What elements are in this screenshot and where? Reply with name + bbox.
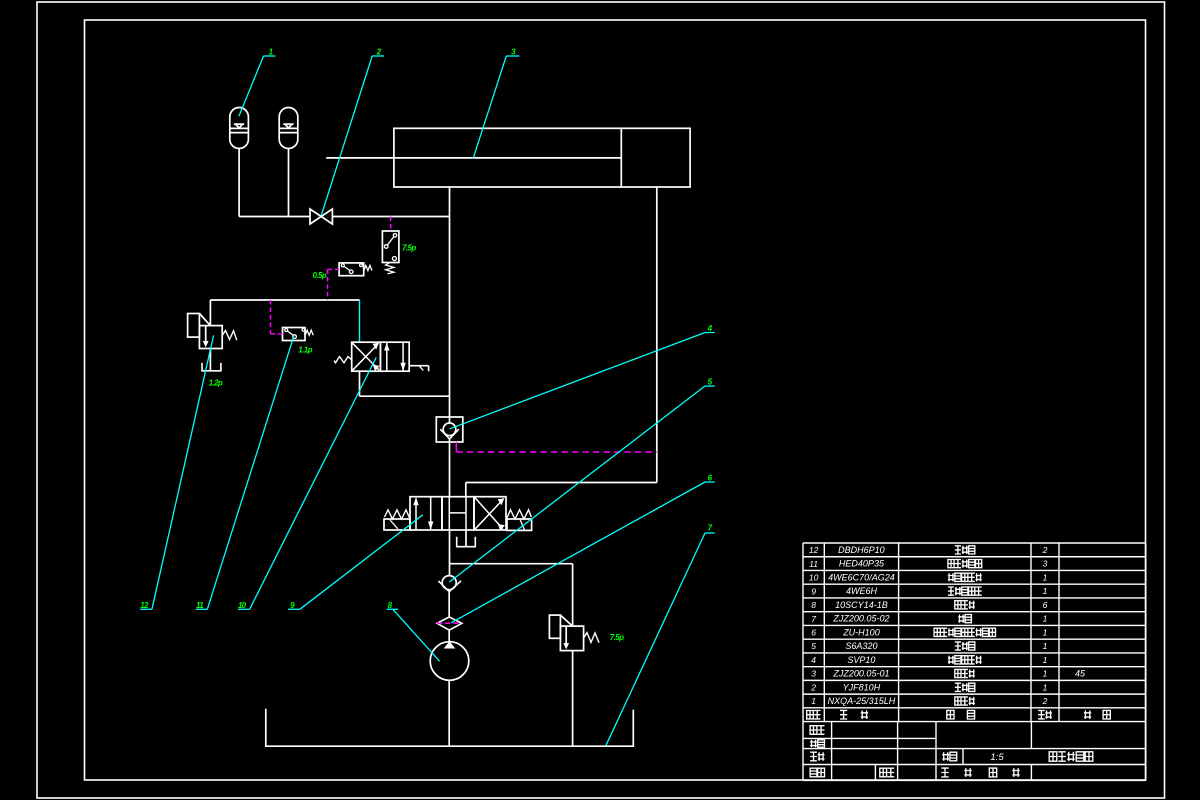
control line: relief valve 12a header [210,299,359,301]
svg-text:1: 1 [1043,655,1048,665]
svg-text:4WE6C70/AG24: 4WE6C70/AG24 [828,572,895,582]
pilot line: header to pressure switch 11b [328,268,340,270]
wire: shut-off valve to cylinder port junction [332,216,449,218]
pilot line: header to pressure switch 11c [270,300,272,334]
leader line for item 5 [449,378,714,583]
leader line for item 7 [606,524,715,746]
svg-text:ZU-H100: ZU-H100 [842,627,880,637]
leader line for item 3 [473,48,519,159]
svg-text:YJF810H: YJF810H [843,682,881,692]
svg-text:4WE6H: 4WE6H [846,586,878,596]
relief valve 12b (DBDH6P10, 7.5p) [549,615,599,651]
svg-text:1: 1 [811,696,816,706]
svg-text:S6A320: S6A320 [845,641,877,651]
hydraulic cylinder 3 (ZJZ200.05-01) [326,128,690,187]
piston [620,128,622,187]
wire: cylinder left port down [449,187,451,417]
svg-text:NXQA-25/315LH: NXQA-25/315LH [828,696,896,706]
svg-text:5: 5 [811,641,816,651]
svg-text:DBDH6P10: DBDH6P10 [838,545,885,555]
svg-text:7: 7 [811,614,816,624]
svg-text:2: 2 [1042,545,1048,555]
svg-text:ZJZ200.05-01: ZJZ200.05-01 [832,669,889,679]
pressure switch 11c (HED40P35, 1.1p) [283,328,314,341]
pressure switch 11b (HED40P35, 0.5p) [339,263,372,276]
svg-text:1: 1 [1043,641,1048,651]
wire: valve 10 outlet down [359,371,361,396]
wire: valve 9 P-port down [449,530,451,576]
svg-text:HED40P35: HED40P35 [839,559,885,569]
svg-text:7.5p: 7.5p [402,243,416,252]
leader line for item 2 [321,47,384,215]
title block labels [810,726,1093,777]
wire: relief valve 12b to tank [572,651,574,747]
wire: header to relief valve 12a [209,300,211,326]
svg-text:45: 45 [1075,669,1086,679]
svg-text:3: 3 [811,669,816,679]
svg-text:4: 4 [811,655,816,665]
svg-text:6: 6 [811,628,816,638]
svg-text:0.5p: 0.5p [313,271,327,280]
svg-text:1: 1 [1043,614,1048,624]
pilot operated check valve 4 (SVP10) [436,417,463,442]
wire: cylinder right port down [656,187,658,483]
svg-text:9: 9 [811,586,816,596]
wire: accumulator 1b drop [288,149,290,217]
wire: SVP10 internal stubs [449,417,451,423]
filter 6 (ZU-H100) [437,617,462,630]
tank symbol under valve 9 [457,537,476,547]
relief valve 12a (DBDH6P10, 1.2p) [188,314,237,349]
wire: control header drop to valve 10 (cyan) [359,300,361,342]
leader line for item 12 [140,335,213,610]
piston rod [326,157,621,159]
parts list rows text [809,545,1086,706]
svg-text:1:5: 1:5 [990,752,1004,763]
wire: right port drop to valve 9 [465,483,467,497]
wire: pump suction to tank [448,680,450,746]
svg-text:10: 10 [809,573,819,583]
wire: right port horizontal to valve 9 [466,482,657,484]
svg-text:1: 1 [1043,586,1048,596]
svg-text:1.1p: 1.1p [298,346,312,355]
tank symbol under relief valve 12a [202,363,221,371]
pilot line: SVP10 remote [455,442,457,452]
wire: valve 10 outlet to main line [360,395,450,397]
svg-text:8: 8 [811,600,816,610]
leader line for item 1 [239,47,276,116]
svg-text:10: 10 [238,601,247,610]
svg-text:1: 1 [1043,682,1048,692]
wire: relief valve 12a to tank symbol [209,349,211,371]
leader line for item 10 [238,357,376,610]
parts list table [803,543,1146,722]
wire: valve 9 T-port to tank symbol [465,530,467,547]
pilot line: pipe to pressure switch 11a [390,217,392,232]
svg-text:1: 1 [1043,627,1048,637]
directional valve 9 (4WE6H) 3-pos 4-way [384,497,532,531]
accumulator 1b (NXQA-25/315LH) [279,108,298,149]
svg-text:7.5p: 7.5p [610,633,624,642]
svg-text:10SCY14-1B: 10SCY14-1B [835,600,888,610]
leader line for item 9 [288,515,423,610]
title block [803,722,1146,781]
svg-text:12: 12 [140,601,149,610]
leader line for item 4 [450,324,715,429]
svg-text:12: 12 [809,545,819,555]
svg-text:1: 1 [1043,669,1048,679]
svg-text:ZJZ200.05-02: ZJZ200.05-02 [832,614,889,624]
svg-text:1: 1 [1043,572,1048,582]
svg-text:2: 2 [1042,696,1048,706]
leader line for item 8 [387,601,440,661]
check valve 5 (S6A320) [438,576,461,592]
wire: accumulator 1a drop [238,149,240,217]
shut-off valve 2 (YJF810H) [310,209,332,224]
leader line for item 11 [196,336,294,610]
pressure switch 11a (HED40P35, 7.5p) [382,231,399,274]
parts list header [807,710,1111,719]
directional valve 10 (4WE6C70/AG24) 2-pos 3-way [334,342,429,371]
pump 8 (10SCY14-1B) [430,642,469,681]
wire: accumulator manifold to shut-off valve [239,216,310,218]
svg-text:3: 3 [1043,559,1048,569]
wire: filter to pump [448,630,450,642]
wire: branch to relief valve 12b [450,563,573,565]
wire: check valve to filter [448,592,450,617]
wire: SVP10 to valve 9 [449,442,451,497]
svg-text:11: 11 [809,559,818,569]
oil tank 7 (ZJZ200.05-02) [266,709,634,746]
accumulator 1a (NXQA-25/315LH) [230,108,249,149]
leader line for item 6 [451,474,715,623]
svg-text:6: 6 [1043,600,1048,610]
svg-text:1.2p: 1.2p [209,378,223,387]
svg-text:2: 2 [810,682,816,692]
svg-text:SVP10: SVP10 [847,655,875,665]
